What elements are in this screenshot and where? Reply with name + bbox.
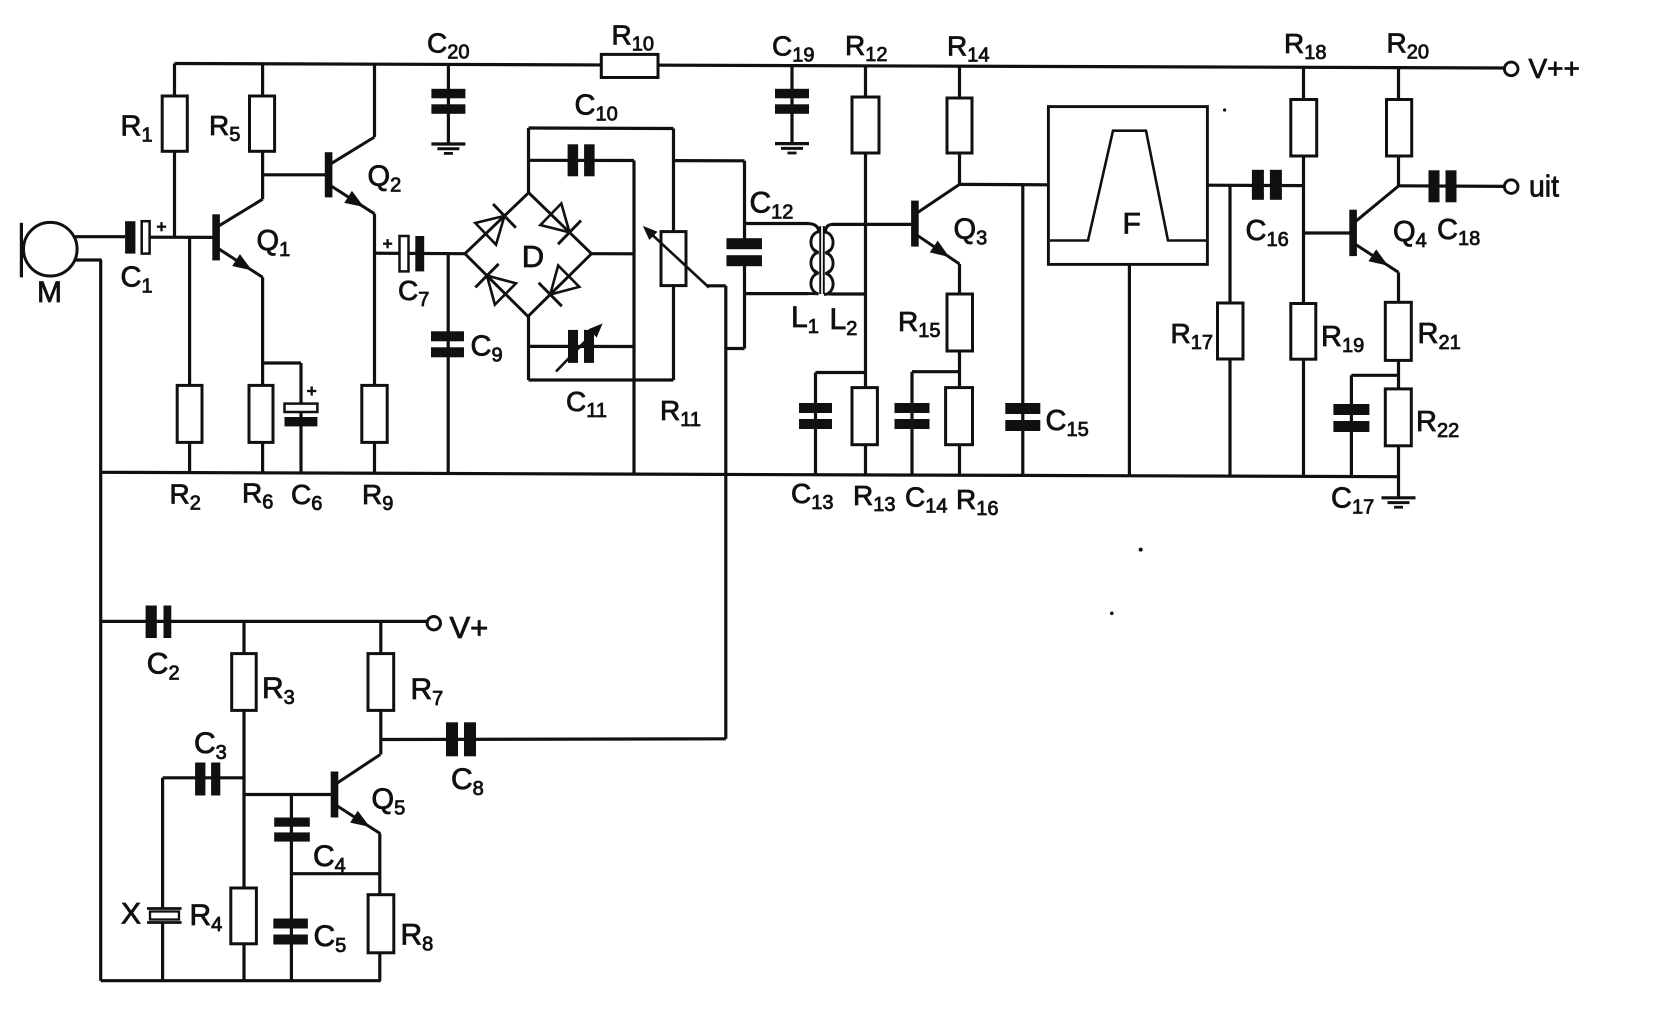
svg-text:F: F bbox=[1123, 208, 1141, 241]
svg-text:V++: V++ bbox=[1529, 53, 1580, 84]
svg-text:X: X bbox=[121, 898, 141, 931]
svg-text:D: D bbox=[522, 239, 544, 274]
svg-text:V+: V+ bbox=[450, 610, 489, 645]
svg-text:uit: uit bbox=[1529, 169, 1559, 204]
svg-text:M: M bbox=[37, 276, 62, 309]
